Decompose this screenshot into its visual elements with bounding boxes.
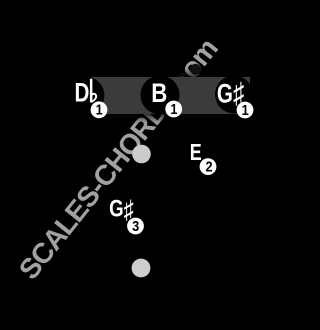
- svg-text:1: 1: [96, 102, 103, 118]
- watermark SCALES-CHORDS.com: [13, 33, 224, 286]
- svg-text:1: 1: [242, 102, 249, 118]
- fret barre bar: [91, 77, 251, 114]
- bar shadow halo: [88, 74, 252, 118]
- watermark dark overlap on "o": [188, 62, 203, 77]
- finger circle 1 under B: [165, 101, 182, 118]
- flat sign of Db: [90, 79, 93, 103]
- svg-text:D: D: [75, 78, 90, 108]
- black circle Db: [66, 76, 104, 114]
- finger circle 2 under E: [200, 158, 217, 175]
- svg-text:G♯: G♯: [109, 194, 134, 223]
- finger circle 3 under G#: [127, 218, 144, 235]
- svg-text:B: B: [151, 79, 167, 108]
- svg-text:E: E: [190, 140, 202, 166]
- gray dot lower: [132, 259, 151, 278]
- finger circle 1 under G#: [237, 102, 254, 119]
- svg-text:3: 3: [132, 218, 139, 234]
- svg-text:1: 1: [170, 101, 177, 117]
- black circle G#: [215, 76, 253, 114]
- svg-text:2: 2: [205, 159, 212, 175]
- black circle B: [141, 76, 180, 115]
- finger circle 1 under Db: [91, 101, 108, 118]
- gray dot upper: [132, 145, 151, 164]
